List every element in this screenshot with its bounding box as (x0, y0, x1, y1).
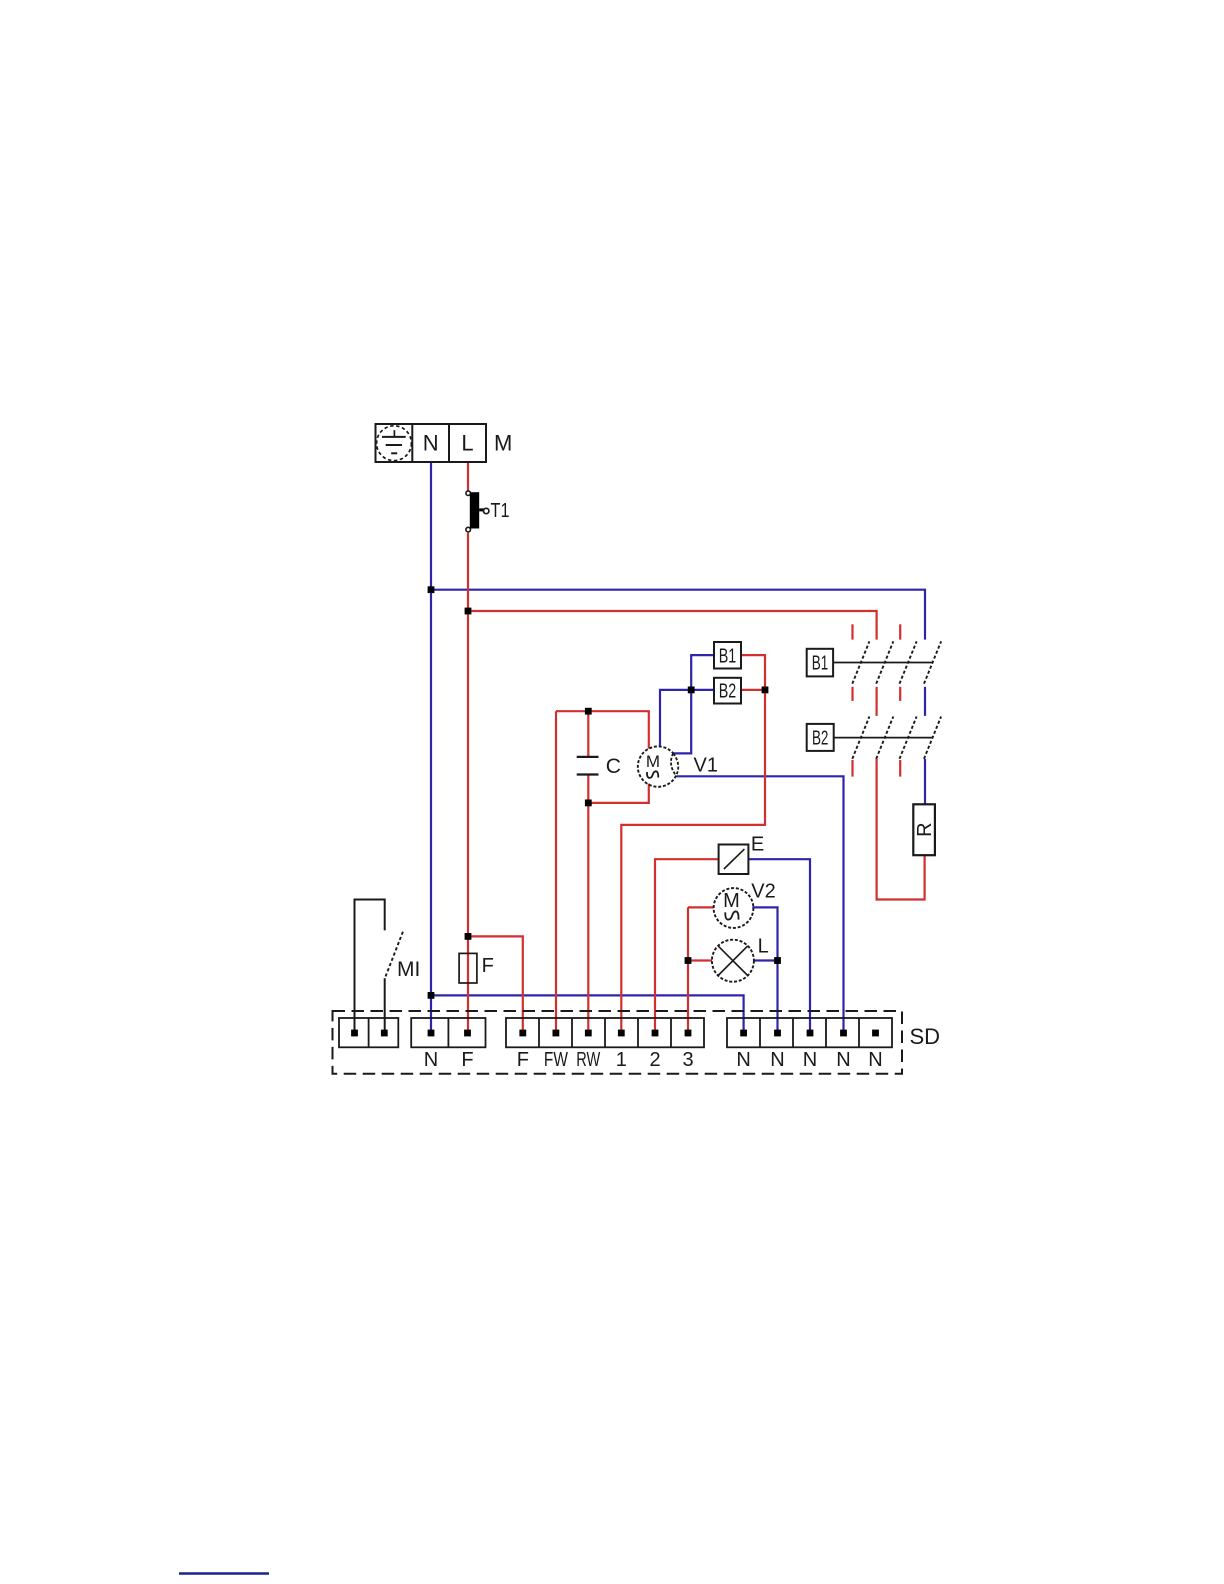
svg-text:MI: MI (397, 958, 420, 981)
svg-text:FW: FW (544, 1049, 568, 1071)
svg-text:N: N (736, 1049, 750, 1071)
svg-text:B1: B1 (812, 653, 829, 675)
svg-text:F: F (461, 1049, 473, 1071)
svg-text:R: R (914, 822, 936, 836)
svg-text:B2: B2 (719, 681, 737, 703)
svg-text:RW: RW (576, 1049, 600, 1071)
svg-text:E: E (751, 834, 764, 856)
svg-text:F: F (482, 955, 494, 977)
svg-text:M: M (494, 431, 512, 456)
svg-text:2: 2 (649, 1049, 660, 1071)
svg-text:V2: V2 (751, 881, 775, 903)
svg-text:1: 1 (616, 1049, 627, 1071)
svg-text:T1: T1 (491, 500, 510, 522)
svg-text:B2: B2 (812, 728, 829, 750)
svg-text:L: L (461, 431, 473, 456)
svg-text:V1: V1 (694, 755, 718, 777)
svg-text:M: M (723, 890, 740, 912)
svg-text:N: N (770, 1049, 784, 1071)
svg-text:N: N (836, 1049, 850, 1071)
svg-text:M: M (646, 752, 660, 771)
svg-text:N: N (868, 1049, 882, 1071)
svg-text:N: N (423, 431, 439, 456)
svg-text:N: N (803, 1049, 817, 1071)
svg-text:3: 3 (682, 1049, 693, 1071)
svg-text:B1: B1 (719, 646, 737, 668)
svg-text:F: F (517, 1049, 529, 1071)
svg-text:L: L (758, 936, 769, 958)
svg-text:SD: SD (910, 1024, 941, 1049)
svg-text:C: C (606, 755, 621, 778)
svg-text:N: N (424, 1049, 438, 1071)
